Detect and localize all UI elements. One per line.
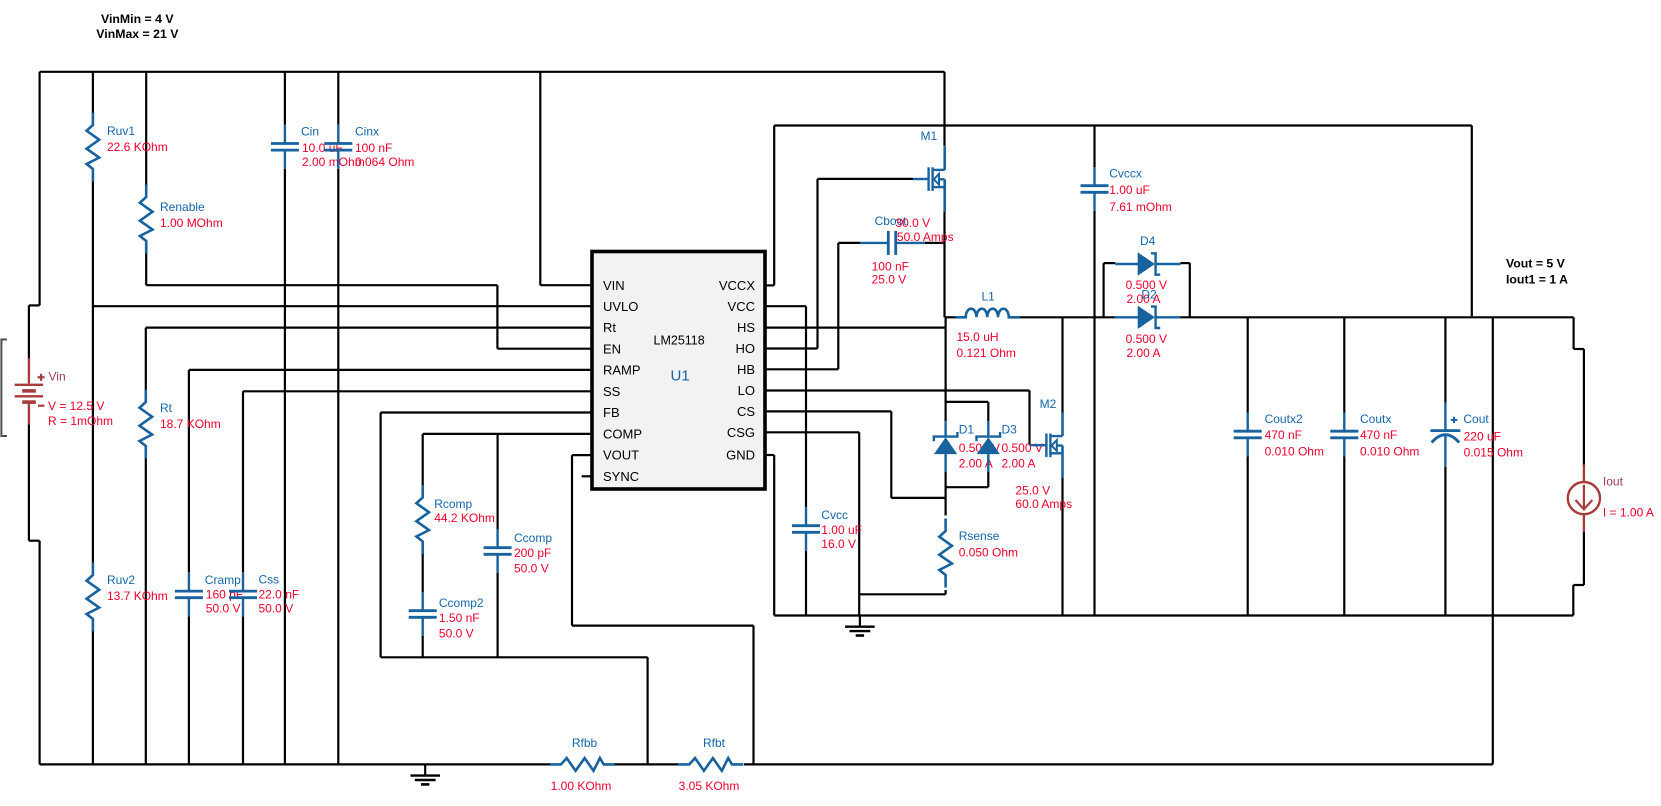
svg-text:Rsense: Rsense xyxy=(959,529,1000,543)
svg-text:22.6 KOhm: 22.6 KOhm xyxy=(107,140,168,154)
svg-text:R = 1mOhm: R = 1mOhm xyxy=(48,414,113,428)
svg-text:Renable: Renable xyxy=(160,200,205,214)
svg-text:1.00 MOhm: 1.00 MOhm xyxy=(160,216,223,230)
svg-text:60.0 Amps: 60.0 Amps xyxy=(1015,497,1072,511)
svg-text:1.00 KOhm: 1.00 KOhm xyxy=(551,779,612,793)
svg-text:M2: M2 xyxy=(1040,397,1057,411)
svg-text:16.0 V: 16.0 V xyxy=(821,537,856,551)
svg-text:COMP: COMP xyxy=(603,427,642,442)
svg-text:I = 1.00 A: I = 1.00 A xyxy=(1603,506,1654,520)
svg-text:FB: FB xyxy=(603,405,620,420)
svg-text:HS: HS xyxy=(737,320,755,335)
svg-text:44.2 KOhm: 44.2 KOhm xyxy=(434,511,495,525)
svg-text:Ccomp2: Ccomp2 xyxy=(439,596,484,610)
svg-text:CSG: CSG xyxy=(727,425,755,440)
svg-text:200 pF: 200 pF xyxy=(514,546,551,560)
svg-text:160 pF: 160 pF xyxy=(206,588,243,602)
svg-text:UVLO: UVLO xyxy=(603,299,638,314)
svg-text:Ruv1: Ruv1 xyxy=(107,124,135,138)
svg-text:HO: HO xyxy=(736,341,756,356)
svg-text:1.00 uF: 1.00 uF xyxy=(821,523,862,537)
svg-text:0.015 Ohm: 0.015 Ohm xyxy=(1464,446,1523,460)
svg-text:50.0 V: 50.0 V xyxy=(439,627,474,641)
svg-text:L1: L1 xyxy=(982,290,996,304)
svg-text:HB: HB xyxy=(737,362,755,377)
svg-text:CS: CS xyxy=(737,404,755,419)
svg-text:15.0 uH: 15.0 uH xyxy=(957,330,999,344)
svg-text:50.0 V: 50.0 V xyxy=(514,562,549,576)
svg-text:Vin: Vin xyxy=(49,370,66,384)
svg-text:13.7 KOhm: 13.7 KOhm xyxy=(107,589,168,603)
svg-text:VCC: VCC xyxy=(728,299,755,314)
svg-text:GND: GND xyxy=(726,448,755,463)
svg-text:Rt: Rt xyxy=(603,320,616,335)
svg-text:VinMax = 21 V: VinMax = 21 V xyxy=(96,27,179,41)
svg-text:220 uF: 220 uF xyxy=(1464,430,1501,444)
svg-text:LM25118: LM25118 xyxy=(654,334,705,348)
svg-text:VCCX: VCCX xyxy=(719,278,755,293)
svg-text:Rfbb: Rfbb xyxy=(572,736,598,750)
svg-text:EN: EN xyxy=(603,341,621,356)
svg-text:U1: U1 xyxy=(671,368,690,385)
svg-text:Cinx: Cinx xyxy=(355,125,379,139)
svg-text:D1: D1 xyxy=(959,423,975,437)
svg-text:0.050 Ohm: 0.050 Ohm xyxy=(959,546,1018,560)
svg-text:470 nF: 470 nF xyxy=(1265,428,1302,442)
svg-text:0.010 Ohm: 0.010 Ohm xyxy=(1265,445,1324,459)
svg-text:50.0 V: 50.0 V xyxy=(259,602,294,616)
svg-text:0.500 V: 0.500 V xyxy=(1126,332,1167,346)
svg-text:Ccomp: Ccomp xyxy=(514,531,552,545)
svg-text:Rcomp: Rcomp xyxy=(434,497,472,511)
svg-text:Css: Css xyxy=(259,573,280,587)
svg-text:7.61 mOhm: 7.61 mOhm xyxy=(1109,200,1172,214)
svg-text:100 nF: 100 nF xyxy=(872,260,909,274)
svg-text:VOUT: VOUT xyxy=(603,448,639,463)
svg-text:Rt: Rt xyxy=(160,401,173,415)
svg-text:D4: D4 xyxy=(1140,234,1156,248)
svg-text:Vout = 5 V: Vout = 5 V xyxy=(1506,257,1566,271)
svg-text:18.7 KOhm: 18.7 KOhm xyxy=(160,417,221,431)
svg-text:SYNC: SYNC xyxy=(603,469,639,484)
svg-text:Cin: Cin xyxy=(301,125,319,139)
svg-text:Coutx2: Coutx2 xyxy=(1265,412,1303,426)
svg-text:D3: D3 xyxy=(1002,423,1018,437)
svg-text:RAMP: RAMP xyxy=(603,363,641,378)
svg-text:Cvccx: Cvccx xyxy=(1109,167,1142,181)
svg-text:D2: D2 xyxy=(1141,288,1157,302)
svg-text:LO: LO xyxy=(738,383,755,398)
svg-text:VIN: VIN xyxy=(603,278,625,293)
svg-text:V = 12.5 V: V = 12.5 V xyxy=(48,399,104,413)
svg-text:25.0 V: 25.0 V xyxy=(1015,484,1050,498)
svg-text:22.0 nF: 22.0 nF xyxy=(259,588,300,602)
svg-text:100 nF: 100 nF xyxy=(355,141,392,155)
svg-text:Rfbt: Rfbt xyxy=(703,736,726,750)
svg-text:1.00 uF: 1.00 uF xyxy=(1109,183,1150,197)
svg-text:2.00 A: 2.00 A xyxy=(1127,346,1161,360)
svg-text:Iout: Iout xyxy=(1603,475,1624,489)
svg-text:1.50 nF: 1.50 nF xyxy=(439,611,480,625)
svg-text:Iout1 = 1 A: Iout1 = 1 A xyxy=(1506,272,1568,286)
svg-text:0.010 Ohm: 0.010 Ohm xyxy=(1360,445,1419,459)
svg-text:0.064 Ohm: 0.064 Ohm xyxy=(355,155,414,169)
svg-text:0.121 Ohm: 0.121 Ohm xyxy=(957,346,1016,360)
svg-text:30.0 V: 30.0 V xyxy=(895,216,930,230)
svg-text:VinMin = 4 V: VinMin = 4 V xyxy=(101,12,174,26)
svg-text:SS: SS xyxy=(603,384,621,399)
svg-text:25.0 V: 25.0 V xyxy=(872,273,907,287)
svg-text:Cvcc: Cvcc xyxy=(821,508,848,522)
svg-text:Ruv2: Ruv2 xyxy=(107,573,135,587)
svg-text:Cramp: Cramp xyxy=(205,573,241,587)
svg-text:M1: M1 xyxy=(921,129,938,143)
svg-text:Coutx: Coutx xyxy=(1360,412,1391,426)
svg-text:470 nF: 470 nF xyxy=(1360,428,1397,442)
svg-text:2.00 A: 2.00 A xyxy=(1002,457,1036,471)
svg-text:50.0 V: 50.0 V xyxy=(206,602,241,616)
svg-text:0.500 V: 0.500 V xyxy=(1002,441,1043,455)
svg-text:Cout: Cout xyxy=(1463,412,1489,426)
svg-text:3.05 KOhm: 3.05 KOhm xyxy=(679,779,740,793)
